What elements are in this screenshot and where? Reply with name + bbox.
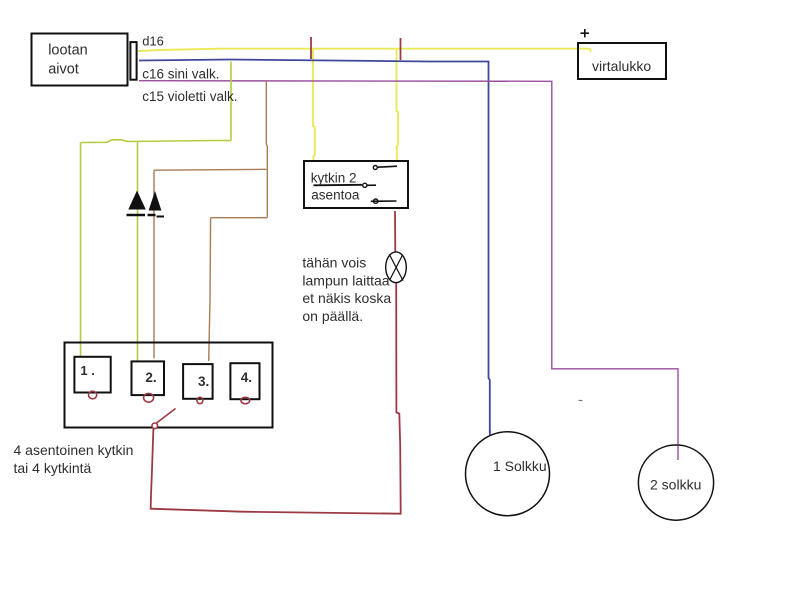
svg-text:aivot: aivot bbox=[48, 62, 79, 78]
svg-text:1 .: 1 . bbox=[80, 363, 94, 378]
svg-text:2 solkku: 2 solkku bbox=[650, 476, 701, 492]
svg-text:lampun laittaa: lampun laittaa bbox=[302, 272, 389, 288]
svg-text:on päällä.: on päällä. bbox=[302, 308, 363, 324]
svg-text:lootan: lootan bbox=[48, 43, 88, 59]
svg-text:et näkis koska: et näkis koska bbox=[302, 290, 391, 306]
svg-text:asentoa: asentoa bbox=[311, 188, 360, 203]
svg-text:3.: 3. bbox=[198, 374, 209, 389]
svg-text:4.: 4. bbox=[241, 370, 252, 385]
svg-text:d16: d16 bbox=[142, 33, 164, 48]
svg-text:2.: 2. bbox=[145, 370, 156, 385]
svg-text:c15 violetti valk.: c15 violetti valk. bbox=[142, 89, 237, 104]
svg-text:1 Solkku: 1 Solkku bbox=[493, 458, 547, 474]
svg-text:virtalukko: virtalukko bbox=[592, 58, 651, 74]
svg-text:4 asentoinen kytkin: 4 asentoinen kytkin bbox=[14, 442, 134, 458]
svg-text:tähän vois: tähän vois bbox=[302, 255, 366, 271]
svg-text:c16 sini valk.: c16 sini valk. bbox=[142, 66, 219, 81]
svg-text:kytkin 2: kytkin 2 bbox=[311, 171, 357, 186]
svg-text:tai 4 kytkintä: tai 4 kytkintä bbox=[14, 460, 92, 476]
